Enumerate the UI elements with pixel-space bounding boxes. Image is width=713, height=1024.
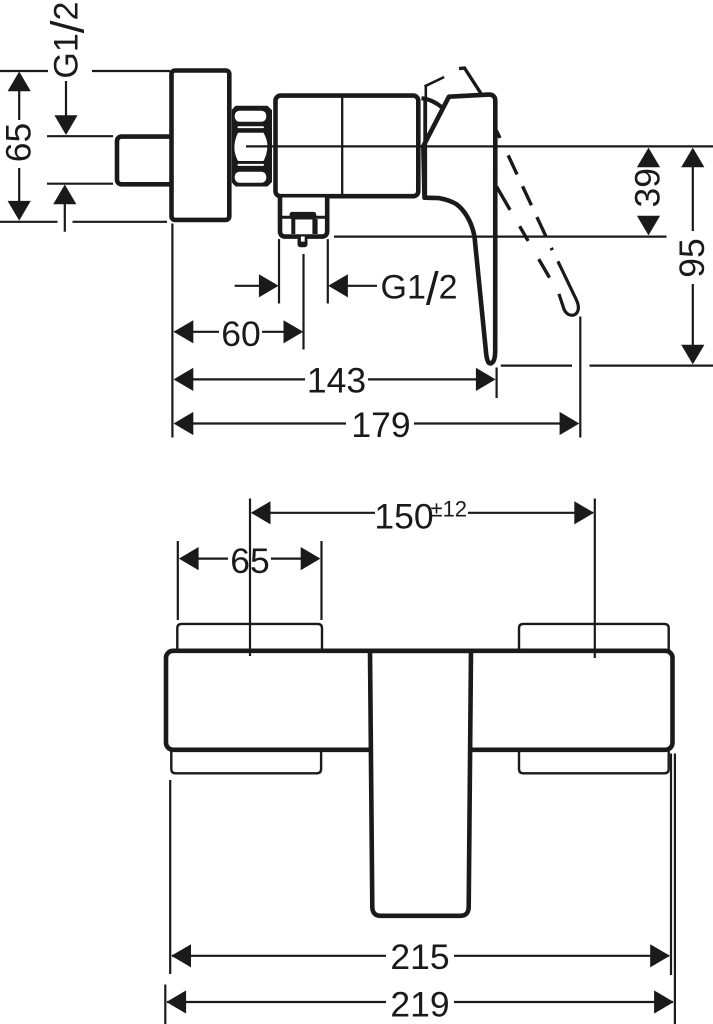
bar top line across block (369, 648, 472, 653)
nut slot top (235, 111, 267, 122)
svg-text:179: 179 (351, 405, 410, 445)
arrow 219 right (654, 990, 674, 1013)
svg-text:215: 215 (390, 937, 449, 977)
outlet nipple bar left (291, 219, 295, 234)
wall plate (172, 71, 230, 220)
95 dim stem (692, 166, 694, 231)
svg-text:39: 39 (627, 168, 667, 208)
arrow 39 down (637, 216, 660, 236)
nut hex middle white (234, 133, 267, 161)
arrow 179 left (174, 412, 194, 435)
body divider line (341, 98, 343, 195)
arrow 95 down (681, 345, 704, 365)
arrow 143 right (476, 368, 496, 391)
main bar body (166, 651, 673, 750)
65 left extension line (177, 541, 179, 620)
centre line of body (246, 145, 713, 147)
svg-text:150: 150 (374, 496, 433, 536)
arrow 60 right (284, 320, 304, 343)
95 bottom reference line (501, 365, 572, 367)
outlet centre line (302, 254, 304, 350)
open handle tip outline (558, 261, 578, 315)
escutcheon cap upper left (177, 624, 322, 651)
179 dim line (176, 422, 346, 424)
cartridge cover top arc (422, 98, 443, 108)
215 dim line (172, 955, 386, 957)
nut thread slit upper (238, 126, 265, 128)
143 extension line at handle tip (496, 368, 498, 399)
arrow 179 right (560, 412, 580, 435)
escutcheon cap lower right (519, 749, 669, 773)
nut thread slit lower (238, 164, 265, 166)
arrow 143 left (174, 368, 194, 391)
svg-text:143: 143 (307, 361, 366, 401)
arrow G1/2 up (to spigot bottom) (53, 185, 76, 205)
219 dim line (167, 1001, 386, 1003)
150 left extension line (249, 499, 251, 657)
TOP VIEW (0, 71, 170, 232)
150 dim line (252, 512, 375, 514)
svg-text:95: 95 (672, 238, 712, 278)
G1/2 leader stem (65, 81, 67, 117)
arrow 150 right (574, 501, 594, 524)
spigot (wall inlet G1/2) (117, 137, 174, 185)
extension line spigot top (47, 135, 113, 137)
arrow 150 left (251, 501, 271, 524)
nut slot bottom (235, 172, 267, 183)
extension line top of wall plate (0, 70, 48, 72)
outlet left extension line (278, 239, 280, 303)
215 right extension line (670, 754, 672, 976)
outlet box below body (280, 198, 327, 237)
open handle thin outline top (425, 77, 445, 86)
svg-text:60: 60 (221, 314, 261, 354)
outlet nipple cap (290, 212, 317, 220)
143 dim line (176, 378, 305, 380)
60 dim line (175, 331, 220, 333)
179 extension line at open tip (579, 317, 581, 438)
body (276, 96, 419, 197)
escutcheon cap upper right (519, 624, 669, 651)
219 left extension line (164, 985, 166, 1024)
arrow 39 up (637, 148, 660, 168)
arrow 65 up (8, 72, 31, 92)
svg-text:65: 65 (0, 123, 38, 163)
arrow 215 right (650, 944, 670, 967)
arrow 219 left (166, 990, 186, 1013)
outlet nipple bar right (312, 219, 317, 234)
svg-text:±12: ±12 (431, 497, 468, 522)
arrow G1/2 outlet right (328, 274, 348, 297)
65 dim line (198, 557, 228, 559)
nut (threaded connector) black silhouette (232, 106, 272, 187)
svg-text:G1/2: G1/2 (381, 262, 458, 314)
65 right extension line (320, 541, 322, 620)
open handle dashed edge 1 (497, 131, 501, 138)
outlet right extension line (327, 239, 329, 303)
centre block (shower arm) (370, 651, 471, 916)
cartridge cover left edge (423, 97, 427, 197)
escutcheon cap lower left (171, 749, 321, 773)
arrow 65 right (301, 547, 321, 570)
G1/2 outlet dim stems (235, 285, 260, 287)
left reference extension line (171, 224, 173, 438)
G1/2 lower arrow stem (64, 203, 66, 232)
open handle corner dash (459, 68, 482, 94)
arrow 95 up (681, 148, 704, 168)
arrow 60 left (174, 320, 194, 343)
outlet inner line (281, 216, 326, 219)
dimension 65 stem (18, 91, 20, 120)
outlet nub (298, 237, 308, 247)
arrow G1/2 down (to spigot top) (54, 115, 77, 135)
open handle dashed edge 2 (497, 187, 550, 278)
extension line bottom of wall plate (0, 221, 58, 223)
arrow 215 left (171, 944, 191, 967)
219 right extension line (674, 754, 676, 1024)
215 left extension line (169, 780, 171, 974)
svg-text:219: 219 (390, 984, 449, 1024)
arrow G1/2 outlet left (259, 274, 279, 297)
39 bottom reference line (334, 236, 667, 238)
handle lever (closed) (423, 95, 495, 364)
arrow 65 down (8, 201, 31, 221)
150 right extension line (594, 499, 596, 659)
extension line spigot bottom (47, 183, 113, 185)
arrow 65 left (179, 547, 199, 570)
svg-text:G1/2: G1/2 (42, 2, 94, 79)
svg-text:65: 65 (230, 541, 270, 581)
